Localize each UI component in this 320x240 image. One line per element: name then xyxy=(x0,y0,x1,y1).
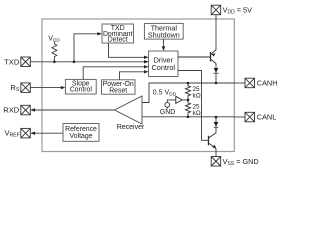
wire TXD line xyxy=(30,61,146,63)
arrowhead into driver control (from slope control) xyxy=(144,65,149,68)
pin VDD xyxy=(211,5,221,15)
svg-text:TXD: TXD xyxy=(4,57,20,66)
pin RXD xyxy=(21,105,31,115)
resistor R1 25k (CANH to node) xyxy=(186,83,191,100)
svg-text:Reset: Reset xyxy=(109,87,127,94)
svg-text:GND: GND xyxy=(160,109,176,116)
diode D2 from CANL xyxy=(215,117,217,122)
wire Q2 emitter to VSS xyxy=(215,149,217,157)
wire power-on reset to driver control xyxy=(120,72,147,80)
wire dominant detect output xyxy=(109,43,147,57)
wire TXD to dominant-detect riser xyxy=(74,34,100,62)
resistor R2 25k (node to CANL) xyxy=(186,100,191,117)
base wire xyxy=(205,139,209,141)
transistor Q2 (NPN, CANL driver) xyxy=(205,128,217,149)
wire driver control to Q2 base xyxy=(178,71,205,141)
transistor Q1 (PNP, CANH driver) xyxy=(178,50,216,68)
pin VSS xyxy=(211,157,221,167)
op-amp buffer 0.5VDD xyxy=(176,96,182,103)
diode D1 to CANH xyxy=(214,68,219,73)
resistor pull-up to VDD on TXD xyxy=(52,42,57,62)
arrowhead into TXD dominant detect xyxy=(97,32,102,35)
chip outer boundary xyxy=(42,19,234,152)
emitter xyxy=(209,143,216,148)
svg-text:Control: Control xyxy=(70,87,93,94)
block TXD Dominant Detect U-det xyxy=(102,24,134,43)
wire Rs to slope control xyxy=(30,87,61,89)
op-amp receiver triangle xyxy=(115,96,143,124)
svg-text:CANL: CANL xyxy=(257,113,276,122)
block Slope Control xyxy=(65,79,96,94)
svg-text:Shutdown: Shutdown xyxy=(148,30,180,39)
emitter arrow (NPN away from base) xyxy=(212,145,216,149)
wire CANL stub xyxy=(234,116,245,118)
pin TXD xyxy=(21,57,31,67)
arrowhead into RXD pin xyxy=(30,108,35,111)
svg-text:VDD = 5V: VDD = 5V xyxy=(223,6,252,16)
wire thermal shutdown to driver control xyxy=(163,39,165,47)
block Driver Control xyxy=(149,51,178,77)
arrowhead into driver control (from TXD) xyxy=(144,60,149,63)
svg-text:Detect: Detect xyxy=(108,37,128,44)
arrowhead into slope control xyxy=(61,86,66,89)
collector xyxy=(211,60,216,64)
base bar xyxy=(208,136,210,146)
wire receiver output to RXD xyxy=(34,109,115,111)
block Thermal Shutdown xyxy=(144,23,183,39)
node junction resistor divider center xyxy=(187,99,190,102)
arrowhead into driver control (from power-on reset) xyxy=(144,70,149,73)
arrowhead into VREF pin xyxy=(30,132,35,135)
wire CANL row xyxy=(142,116,234,118)
svg-text:CANH: CANH xyxy=(257,79,278,88)
wire buffer to resistor node xyxy=(182,99,188,101)
block Power-On Reset xyxy=(102,80,136,94)
pin CANH xyxy=(245,78,255,88)
pin VREF xyxy=(21,128,31,138)
wire reference voltage to VREF xyxy=(34,132,63,134)
wire CANH row xyxy=(142,83,234,103)
svg-text:Receiver: Receiver xyxy=(117,124,145,131)
svg-text:kΩ: kΩ xyxy=(193,110,201,117)
node junction diode/CANL row xyxy=(215,116,218,119)
node junction TXD/riser xyxy=(73,61,76,64)
wire CANH stub xyxy=(234,82,245,84)
arrowhead into driver control top xyxy=(162,46,165,51)
wire slope control to driver control xyxy=(83,67,146,80)
block Reference Voltage xyxy=(63,124,99,142)
emitter arrow (PNP into base) xyxy=(211,53,215,56)
pin CANL xyxy=(245,112,255,122)
svg-text:Control: Control xyxy=(152,63,176,72)
collector xyxy=(209,133,216,138)
pin Rs xyxy=(21,83,31,93)
node junction pull-up/TXD xyxy=(53,61,56,64)
node junction diode/CANH row xyxy=(215,82,218,85)
svg-text:kΩ: kΩ xyxy=(193,93,201,100)
base wire from driver control xyxy=(178,56,211,58)
svg-text:RXD: RXD xyxy=(3,106,20,115)
base bar xyxy=(210,52,212,62)
arrowhead into driver control (from dominant detect) xyxy=(144,56,149,59)
emitter xyxy=(211,50,216,54)
svg-text:Voltage: Voltage xyxy=(70,133,93,140)
wire VDD into chip xyxy=(215,15,217,50)
